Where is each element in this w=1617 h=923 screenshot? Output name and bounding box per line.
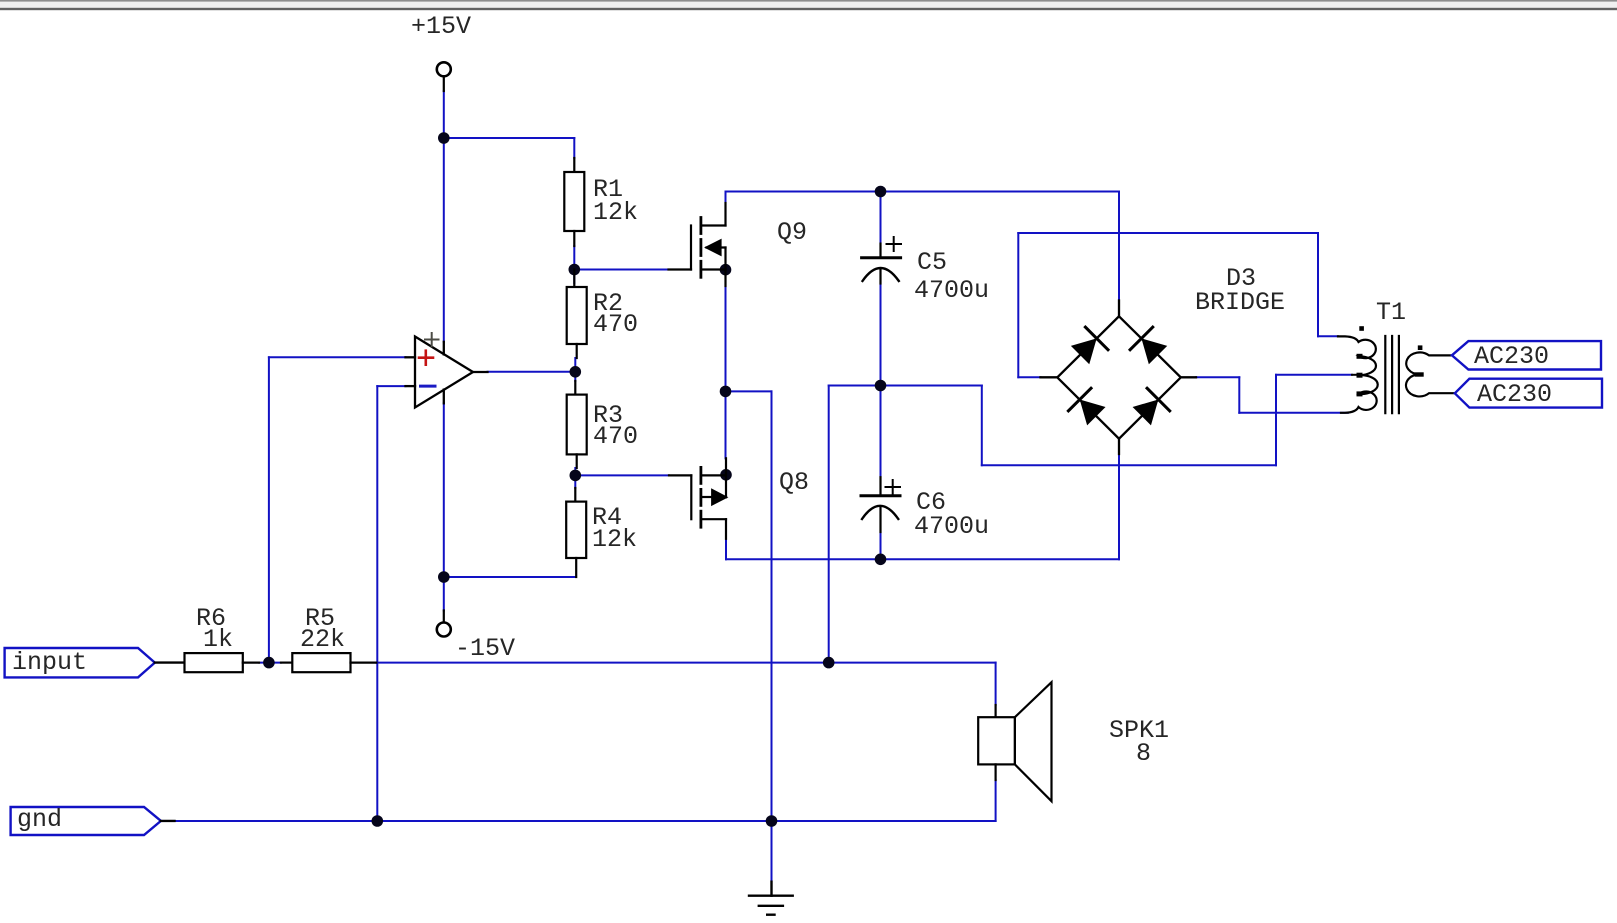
wire +15V rail junction right to R1 column bbox=[444, 137, 575, 139]
svg-text:8: 8 bbox=[1136, 739, 1151, 768]
node +15V rail junction bbox=[438, 132, 450, 144]
svg-text:-15V: -15V bbox=[455, 634, 515, 663]
wire bridge W to loop column bbox=[1018, 376, 1040, 378]
node input R6/R5 bbox=[263, 657, 275, 669]
connector flag: gnd bbox=[11, 807, 175, 835]
wire R2 bottom to opamp out junction bbox=[574, 358, 576, 381]
bridge rectifier D3 bbox=[1041, 301, 1197, 455]
wire to transformer primary top bbox=[1318, 335, 1338, 337]
secondary phase dot bbox=[1418, 345, 1423, 350]
wire 0V column down to speaker row bbox=[828, 386, 830, 663]
svg-text:1k: 1k bbox=[203, 625, 233, 654]
wire bridge S column bbox=[1118, 454, 1120, 559]
resistor R6 bbox=[185, 653, 260, 672]
wire C6 bottom pin bbox=[880, 532, 882, 559]
transformer T1 core bbox=[1385, 336, 1399, 413]
wire -V row C6 to bridge S corner bbox=[881, 558, 1120, 560]
ground symbol bbox=[749, 882, 793, 915]
node output (Q9/Q8) bbox=[720, 386, 732, 398]
svg-text:470: 470 bbox=[593, 310, 638, 339]
svg-text:AC230: AC230 bbox=[1474, 342, 1549, 371]
wire V+ supply down opamp bbox=[443, 138, 445, 342]
node 0V mid bbox=[875, 380, 887, 392]
wire output node right bbox=[726, 390, 772, 392]
node feedback at gnd rail bbox=[372, 815, 384, 827]
diode D3a (W-N edge) bbox=[1069, 327, 1108, 366]
svg-text:BRIDGE: BRIDGE bbox=[1195, 288, 1285, 317]
resistor R3 bbox=[567, 381, 587, 468]
diode D3c (S-W edge) bbox=[1068, 388, 1107, 427]
wire opamp output bbox=[488, 371, 576, 373]
transformer T1 primary winding bbox=[1338, 336, 1378, 412]
resistor R1 bbox=[564, 158, 584, 246]
connector flag: AC230 (bottom) bbox=[1455, 379, 1602, 408]
diode D3d (S-E edge) bbox=[1130, 388, 1169, 427]
svg-text:12k: 12k bbox=[593, 198, 638, 227]
svg-text:4700u: 4700u bbox=[914, 512, 989, 541]
wire gnd stem bbox=[771, 821, 773, 882]
connector flag: input bbox=[5, 648, 185, 677]
wire loop top rail bbox=[1018, 232, 1318, 234]
wire loop right column down bbox=[1317, 233, 1319, 336]
top toolbar strip bbox=[0, 0, 1617, 10]
wire C5 bottom to 0V node bbox=[880, 284, 882, 386]
resistor R2 bbox=[567, 270, 587, 359]
svg-text:input: input bbox=[12, 648, 87, 677]
wire speaker bottom pin to gnd rail bbox=[995, 780, 997, 821]
node Q8 source bbox=[720, 469, 732, 481]
svg-text:AC230: AC230 bbox=[1477, 380, 1552, 409]
wire center tap to transformer bbox=[1276, 374, 1352, 376]
wire C6 top pin bbox=[880, 386, 882, 478]
capacitor C5 bbox=[862, 237, 901, 284]
wire E jog down bbox=[1238, 377, 1240, 413]
op-amp inverting marker (blue minus) bbox=[421, 385, 436, 388]
node -15V junction bbox=[438, 571, 450, 583]
transistor Q9 (top MOSFET) bbox=[669, 203, 726, 286]
transformer T1 secondary joint square bbox=[1415, 345, 1424, 376]
wire R3 bottom to R3/R4 junction bbox=[574, 468, 576, 488]
svg-text:4700u: 4700u bbox=[914, 276, 989, 305]
wire input row R6-R5 bbox=[259, 662, 281, 664]
wire center tap column up bbox=[1275, 375, 1277, 466]
wire E to transformer primary bottom bbox=[1239, 412, 1348, 414]
wire gnd rail bbox=[175, 820, 996, 822]
node Q9 source bbox=[720, 264, 732, 276]
svg-text:T1: T1 bbox=[1376, 298, 1406, 327]
capacitor C6 bbox=[861, 477, 900, 532]
connector flag: AC230 (top) bbox=[1452, 341, 1601, 369]
diamond bbox=[1057, 316, 1181, 438]
wire Q8 source up to output node bbox=[725, 391, 727, 458]
wire +15V terminal down to rail junction bbox=[443, 91, 445, 138]
wire 0V row to center tap column bbox=[982, 464, 1276, 466]
svg-text:Q9: Q9 bbox=[777, 218, 807, 247]
wire bridge E right bbox=[1196, 376, 1239, 378]
transistor Q8 (bottom MOSFET) bbox=[669, 458, 726, 539]
svg-text:22k: 22k bbox=[300, 625, 345, 654]
svg-text:+15V: +15V bbox=[411, 12, 471, 41]
wire 0V node left bbox=[829, 385, 881, 387]
svg-text:Q8: Q8 bbox=[779, 468, 809, 497]
wire V- supply from opamp down to -15V junction bbox=[443, 403, 445, 577]
wire -in feedback down to gnd rail bbox=[376, 386, 378, 821]
power terminal -15V bbox=[437, 611, 451, 637]
wire Q9 source down to output node bbox=[725, 286, 727, 391]
pins bbox=[1118, 301, 1120, 317]
wire R1/R2 junction to Q9 gate bbox=[574, 269, 668, 271]
svg-text:gnd: gnd bbox=[17, 805, 62, 834]
primary phase dot bbox=[1359, 326, 1364, 331]
wire R5 right to speaker top corner bbox=[376, 662, 995, 664]
wire -15V junction to terminal bbox=[443, 577, 445, 611]
op-amp V+ marker (gray plus) bbox=[425, 333, 439, 346]
wire +in down to input junction bbox=[268, 357, 270, 662]
node R3/R4 junction bbox=[570, 470, 582, 482]
wire R3/R4 junction to Q8 gate bbox=[575, 474, 669, 476]
wire Q8 drain down bbox=[725, 539, 727, 560]
svg-text:470: 470 bbox=[593, 422, 638, 451]
wire opamp -in bbox=[377, 385, 405, 387]
transformer T1 primary joint squares bbox=[1357, 326, 1364, 396]
wire R4 bottom to -15V junction bbox=[444, 576, 576, 578]
svg-text:C5: C5 bbox=[917, 248, 947, 277]
wire -V row Q8 to C6 bottom bbox=[726, 558, 881, 560]
transformer T1 secondary winding bbox=[1406, 352, 1455, 396]
diode D3b (E-N edge) bbox=[1130, 327, 1169, 366]
node gnd stem bbox=[766, 815, 778, 827]
node +V rail / C5 top bbox=[875, 186, 887, 198]
wire output column down to gnd rail bbox=[771, 391, 773, 821]
wire opamp +in bbox=[269, 356, 406, 358]
power terminal +15V bbox=[437, 62, 451, 91]
wire speaker top pin bbox=[995, 663, 997, 705]
wire R1 bottom junction bbox=[573, 246, 575, 283]
wire +V top rail to bridge N column bbox=[726, 191, 1120, 193]
node 0V at speaker row bbox=[823, 657, 835, 669]
node opamp out / R2/R3 junction bbox=[570, 366, 582, 378]
resistor R4 bbox=[566, 488, 586, 577]
wire 0V jog down bbox=[981, 386, 983, 466]
wire Q9 drain up to +V rail corner bbox=[725, 192, 727, 204]
node R1/R2 junction bbox=[569, 264, 581, 276]
resistor R5 bbox=[281, 653, 376, 672]
svg-text:12k: 12k bbox=[592, 525, 637, 554]
wire bridge N column down bbox=[1118, 192, 1120, 301]
wire 0V node right bbox=[881, 385, 982, 387]
wire C5 top bbox=[880, 192, 882, 244]
op-amp U1 bbox=[406, 337, 488, 408]
wire R1 column down to R1 top pin bbox=[573, 138, 575, 158]
node C6 bottom bbox=[875, 554, 887, 566]
wire loop column up bbox=[1017, 233, 1019, 377]
op-amp noninverting marker (red plus) bbox=[419, 351, 433, 365]
speaker SPK1 bbox=[978, 682, 1051, 801]
